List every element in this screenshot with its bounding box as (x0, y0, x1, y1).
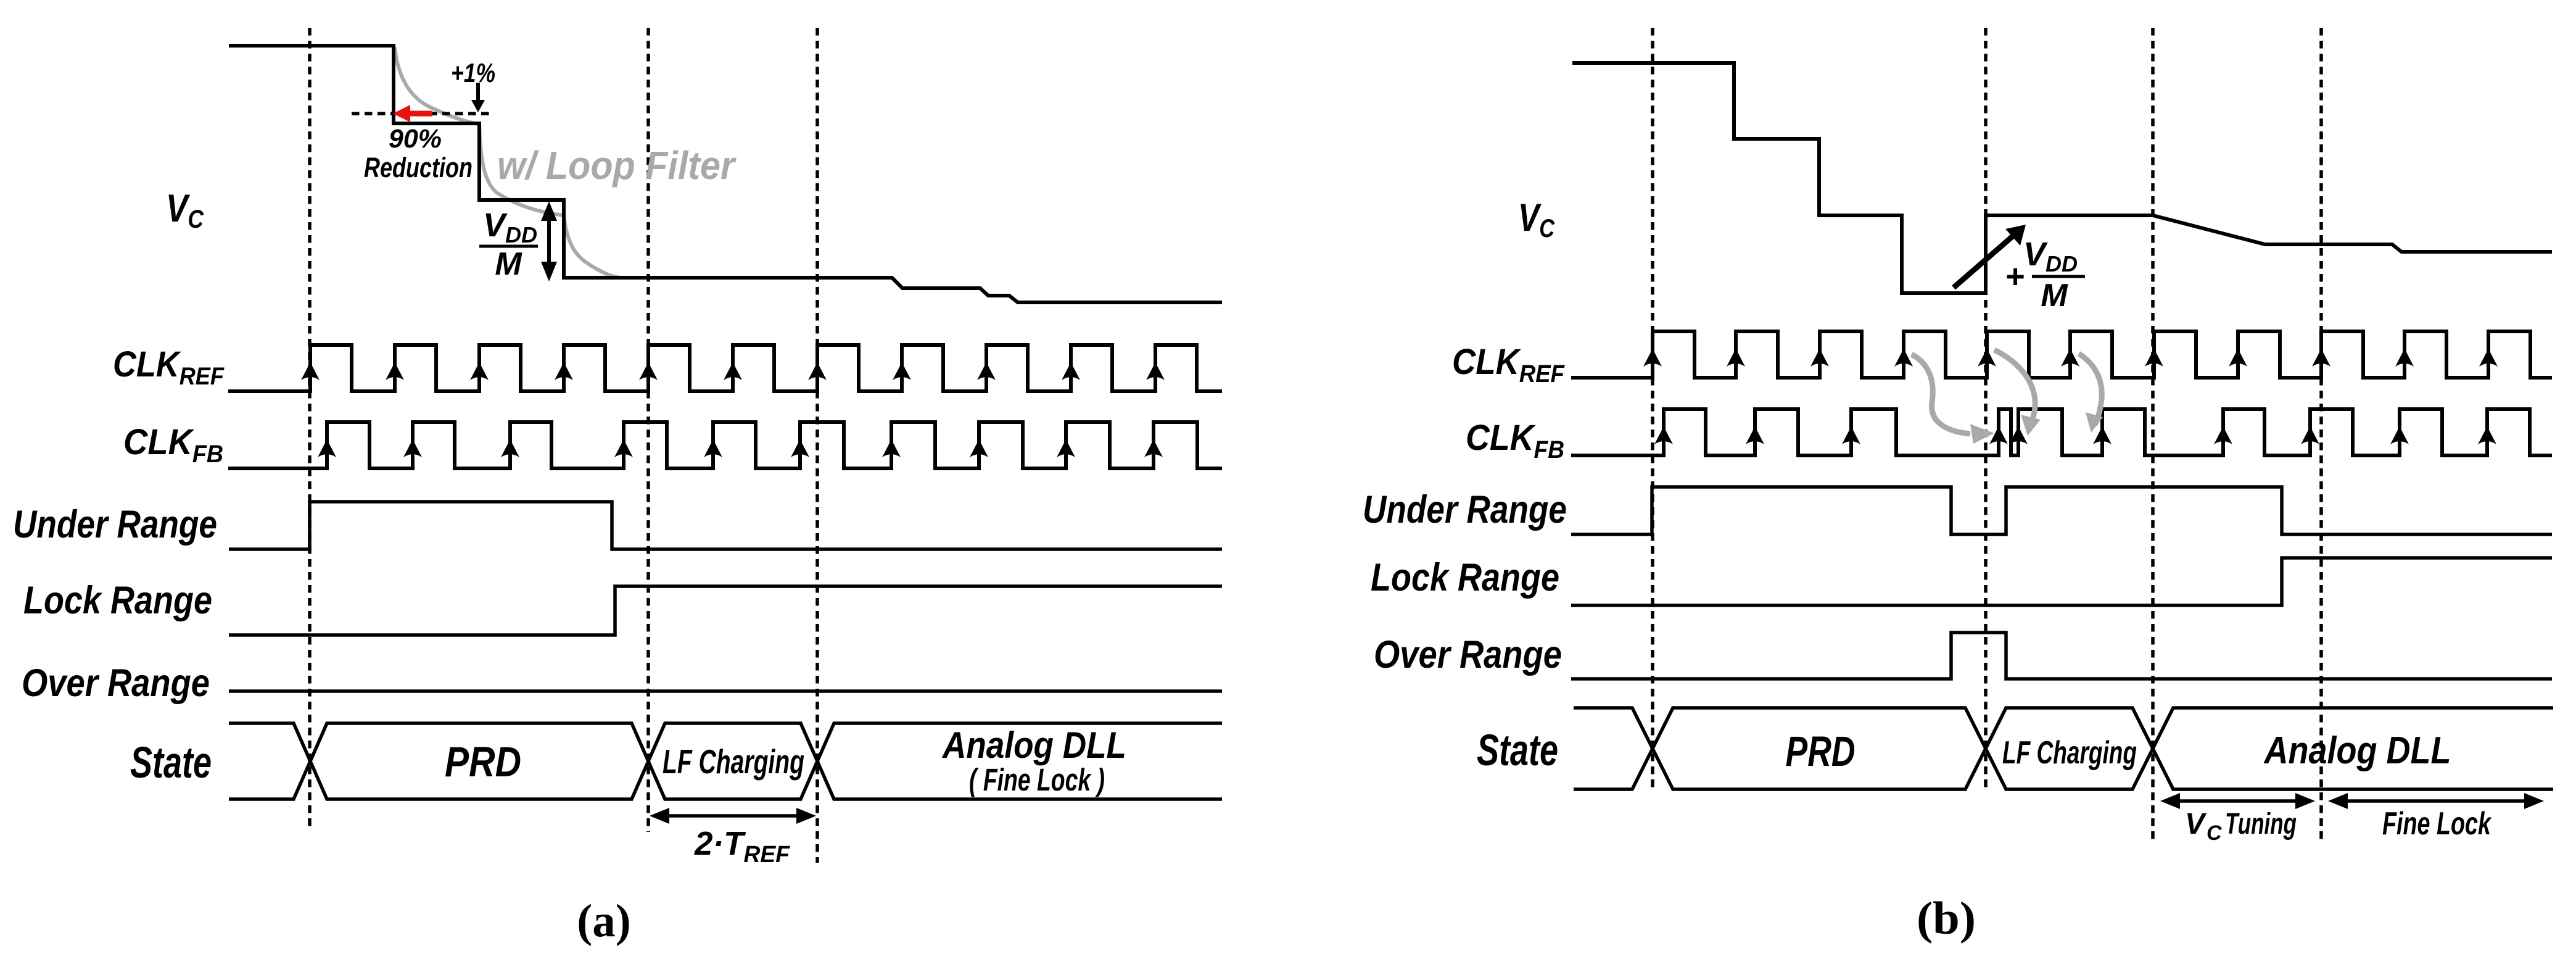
CLK_REF (a) rising-edge arrows (301, 362, 1165, 380)
gray edge-shift arrow 3 (b) (2079, 354, 2102, 425)
svg-text:Analog DLL: Analog DLL (941, 724, 1126, 766)
panel-b t4 dashed vertical line (2319, 28, 2323, 841)
panel-b t3 dashed vertical line (2151, 28, 2155, 841)
wire CLK_REF (a) waveform (228, 345, 1222, 391)
svg-text:PRD: PRD (1786, 728, 1856, 775)
panel-b t1 dashed vertical line (1651, 28, 1654, 791)
wire State (a) bus bottom line (229, 723, 1222, 799)
panel-a t1 dashed vertical line (308, 28, 312, 831)
svg-text:Under Range: Under Range (13, 503, 217, 546)
wire Lock Range (a) (229, 586, 1222, 635)
svg-text:Lock Range: Lock Range (23, 579, 212, 622)
svg-text:Analog DLL: Analog DLL (2263, 729, 2451, 772)
2TREF double-headed arrow (667, 814, 799, 818)
wire Over Range (a) (229, 689, 1222, 693)
svg-text:C: C (2207, 821, 2222, 845)
wire V_C waveform (b) (1572, 63, 2552, 293)
red 90% reduction arrow (409, 111, 432, 117)
svg-text:Reduction: Reduction (364, 152, 473, 183)
svg-text:PRD: PRD (445, 738, 521, 786)
wire CLK_REF (b) waveform (1571, 331, 2552, 378)
svg-text:Tuning: Tuning (2225, 808, 2297, 841)
svg-text:+: + (2005, 258, 2025, 295)
svg-text:LF Charging: LF Charging (663, 742, 804, 781)
wire State (b) bus bottom line (1574, 708, 2553, 789)
wire Under Range (a) (229, 502, 1222, 549)
+1% down arrow (476, 83, 480, 104)
gray edge-shift arrow 2 (b) (1994, 350, 2035, 421)
svg-text:M: M (2041, 278, 2068, 313)
wire V_C waveform (a) (229, 46, 1222, 302)
svg-text:Under Range: Under Range (1363, 488, 1567, 531)
svg-text:Fine Lock: Fine Lock (2382, 806, 2492, 842)
panel-a t3 dashed vertical line (815, 28, 819, 863)
CLK_REF (b) rising-edge arrows (1643, 349, 2498, 367)
90% level dashed horizontal line (352, 112, 492, 115)
svg-text:(a): (a) (577, 895, 630, 947)
svg-text:Lock Range: Lock Range (1371, 556, 1559, 599)
svg-text:M: M (495, 246, 522, 282)
wire CLK_FB (a) waveform (228, 422, 1222, 468)
Fine lock arrow double-headed arrow (2345, 799, 2527, 803)
svg-text:V: V (2185, 808, 2207, 841)
svg-text:90%: 90% (389, 124, 442, 154)
panel-a t2 dashed vertical line (646, 28, 650, 832)
VC tuning arrow double-headed arrow (2178, 799, 2298, 803)
wire State (b) bus top line (1574, 708, 2553, 789)
V_C jump diagonal arrow (b) (1954, 235, 2015, 288)
svg-text:( Fine Lock ): ( Fine Lock ) (969, 762, 1105, 797)
wire State (a) bus top line (229, 723, 1222, 799)
svg-text:Over Range: Over Range (22, 662, 210, 705)
wire CLK_FB (b) waveform (1571, 409, 2552, 455)
svg-text:State: State (1477, 726, 1558, 775)
gray edge-shift arrow 1 (b) (1912, 354, 1970, 434)
wire Over Range (b) (1571, 633, 2552, 679)
wire Under Range (b) (1571, 487, 2552, 534)
svg-text:(b): (b) (1917, 893, 1976, 944)
svg-text:LF Charging: LF Charging (2002, 735, 2137, 771)
V_DD/M step double arrow (a) (547, 217, 551, 265)
wire Lock Range (b) (1571, 558, 2552, 605)
svg-text:w/ Loop Filter: w/ Loop Filter (497, 143, 737, 188)
w/ Loop Filter gray response curve (395, 47, 622, 278)
svg-text:+1%: +1% (451, 58, 495, 88)
CLK_FB (b) rising-edge arrows (1654, 426, 2496, 444)
panel-b t2 dashed vertical line (1984, 28, 1988, 791)
svg-text:State: State (130, 739, 212, 787)
CLK_FB (a) rising-edge arrows (318, 439, 1163, 457)
svg-text:Over Range: Over Range (1374, 633, 1562, 676)
